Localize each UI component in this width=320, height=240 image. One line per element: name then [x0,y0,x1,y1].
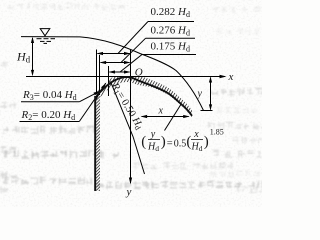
svg-text:): ) [161,134,166,150]
svg-text:x: x [228,71,234,83]
dimension arrow 0.276 Hd [101,62,130,64]
arrowhead R2 leader [101,83,106,89]
arrowhead R3 leader [94,91,101,95]
arrowhead y dimension top [209,77,212,83]
y axis [130,50,132,183]
y dimension line (sample point) [210,78,212,110]
leader underline 0.276 Hd [146,37,196,39]
arrowhead Hd bottom [31,70,34,76]
svg-text:y: y [126,186,132,198]
leader line to equation [165,104,182,131]
svg-text:0.175 Hd: 0.175 Hd [151,41,190,54]
water surface symbol triangle [40,29,50,36]
svg-text:y: y [150,129,156,140]
equation (y/Hd) = 0.5 (x/Hd)^1.85 [141,128,224,154]
radius line R1 [111,82,145,175]
arrowhead x dimension right [183,115,190,118]
arrowheads [31,37,227,185]
extension line B (0.276 Hd) [99,55,101,95]
arrowhead x axis [220,75,227,78]
arrowhead x dimension left [141,115,148,118]
leader line 0.276 Hd [121,38,146,62]
arrowhead 0.282 left [97,52,104,55]
svg-text:1.85: 1.85 [210,128,224,137]
dimension arrow 0.282 Hd [98,53,130,55]
hatch band along crest curve [96,77,192,118]
svg-text:0.5: 0.5 [174,138,187,149]
extension line A (0.282 Hd) [96,50,98,95]
arrowhead 0.282 right [124,52,131,55]
svg-text:x: x [193,129,199,140]
leader underline 0.175 Hd [142,54,196,56]
arrowhead 0.175 right [124,70,131,73]
hatch band along upstream face [96,95,100,191]
Hd dimension line [32,38,34,75]
arrowhead Hd top [31,37,34,43]
svg-text:x: x [158,106,164,117]
upstream face (thick vertical line) [94,96,96,191]
svg-text:0.276 Hd: 0.276 Hd [151,24,190,37]
water surface symbol dashes [37,39,56,44]
leader underline R2 [20,121,80,123]
extension line C (0.175 Hd) [108,66,110,96]
wire: upstream water surface line and drawdown curve [21,37,204,111]
dimension arrow 0.175 Hd [109,71,129,73]
arrowhead y dimension bottom [209,104,212,110]
leader underline 0.282 Hd [148,21,194,23]
leader line R2 [79,83,105,121]
leader line 0.175 Hd [120,55,142,73]
arrowhead 0.276 left [100,61,107,64]
crest profile curve (thick) [96,77,192,116]
svg-text:=: = [167,138,173,149]
x axis line (crest elevation line continuing to x axis) [26,76,225,78]
scan bleed-through noise (decorative) [3,126,95,135]
paper grain (decorative) [0,0,262,207]
short reference tick at end of water surface curve [201,110,213,112]
arrowhead y axis [129,178,132,185]
x dimension line (sample point) [142,116,189,118]
svg-text:y: y [197,89,203,100]
svg-text:O: O [135,67,143,79]
leader underline R3 [21,101,79,103]
svg-text:(: ( [141,134,146,150]
svg-text:0.282 Hd: 0.282 Hd [151,6,190,19]
arrowhead 0.175 left [109,70,116,73]
arrowhead 0.276 right [124,61,131,64]
svg-text:): ) [204,134,209,150]
leader line 0.282 Hd [118,22,148,54]
leader line R3 [79,91,99,102]
